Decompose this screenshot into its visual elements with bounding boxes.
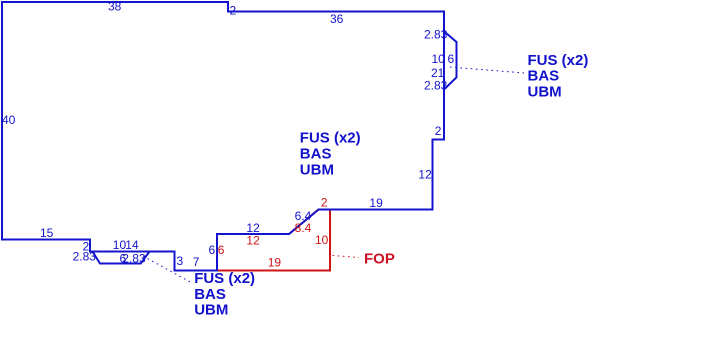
svg-text:2.83: 2.83 [424, 28, 448, 42]
svg-text:2.83: 2.83 [73, 250, 97, 264]
svg-text:FUS (x2): FUS (x2) [300, 130, 361, 147]
svg-text:8.4: 8.4 [295, 221, 312, 235]
svg-text:12: 12 [246, 234, 260, 248]
svg-text:6: 6 [448, 52, 455, 66]
svg-text:12: 12 [418, 168, 432, 182]
svg-text:3: 3 [177, 254, 184, 268]
svg-text:2: 2 [321, 196, 328, 210]
svg-text:FUS (x2): FUS (x2) [194, 270, 255, 287]
svg-text:19: 19 [369, 196, 383, 210]
svg-text:7: 7 [193, 255, 200, 269]
svg-text:14: 14 [125, 238, 139, 252]
svg-text:2: 2 [230, 4, 237, 18]
svg-text:BAS: BAS [300, 145, 332, 162]
svg-text:19: 19 [268, 256, 282, 270]
svg-text:2.83: 2.83 [122, 251, 146, 265]
svg-text:2: 2 [435, 124, 442, 138]
svg-text:FUS (x2): FUS (x2) [528, 52, 589, 69]
svg-text:UBM: UBM [528, 84, 562, 101]
dotted leader to top-right FUS label [450, 67, 524, 73]
FOP red outline polygon [217, 210, 330, 271]
svg-text:BAS: BAS [528, 68, 560, 85]
svg-text:6: 6 [209, 243, 216, 257]
svg-text:BAS: BAS [194, 286, 226, 303]
dotted leader to FOP label [333, 256, 360, 258]
svg-text:10: 10 [315, 233, 329, 247]
svg-text:10: 10 [432, 52, 446, 66]
svg-text:2.83: 2.83 [424, 79, 448, 93]
dotted leader to bottom FUS label [143, 256, 192, 283]
svg-text:UBM: UBM [194, 302, 228, 319]
svg-text:FOP: FOP [364, 251, 395, 268]
svg-text:38: 38 [108, 0, 122, 14]
right-side bump protrusion [444, 31, 457, 89]
svg-text:6: 6 [218, 243, 225, 257]
main blue part outline [2, 2, 444, 271]
svg-text:UBM: UBM [300, 162, 334, 179]
svg-text:15: 15 [40, 226, 54, 240]
svg-text:40: 40 [2, 113, 16, 127]
svg-text:36: 36 [330, 12, 344, 26]
bottom-left trapezoid notch [93, 252, 150, 264]
